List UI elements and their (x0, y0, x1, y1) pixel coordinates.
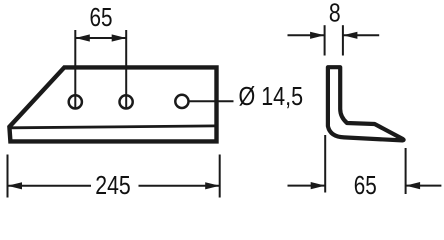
dimension 8: left line (288, 34, 325, 36)
extension line hole2 (125, 30, 127, 109)
dimension 65 top: line (75, 37, 126, 39)
dimension 8: extension right (342, 25, 344, 55)
dimension 65 bottom: left line (288, 185, 326, 187)
leader line hole diameter (189, 100, 234, 102)
extension line hole1 (74, 30, 76, 109)
hole 3 (175, 95, 188, 108)
dimension 245: line left segment (8, 185, 92, 187)
dimension 65 bottom: left arrow (311, 182, 326, 189)
svg-text:8: 8 (329, 0, 341, 28)
svg-text:65: 65 (354, 170, 377, 200)
dimension 8: left arrow (310, 32, 325, 39)
dimension 8: extension left (324, 25, 326, 55)
svg-text:65: 65 (90, 2, 113, 32)
dimension 8: right arrow (343, 32, 358, 39)
svg-text:Ø 14,5: Ø 14,5 (239, 81, 304, 111)
bevel line (11, 126, 216, 128)
svg-text:245: 245 (95, 170, 131, 200)
dimension 65 bottom: right arrow (406, 182, 421, 189)
hole 2 (120, 95, 133, 108)
blade side view outline (9, 67, 216, 141)
dimension 245: left arrow (8, 182, 23, 189)
dimension 65 bottom: extension left (324, 135, 326, 193)
dimension 245: extension right (219, 155, 221, 198)
dimension 245: extension left (7, 155, 9, 198)
dimension 245: line right segment (139, 185, 220, 187)
dimension 65 bottom: extension right (405, 148, 407, 194)
blade cross-section profile (328, 67, 404, 140)
dimension 245: right arrow (205, 182, 220, 189)
hole 1 (69, 95, 82, 108)
dimension 65 top: left arrow (75, 34, 90, 41)
dimension 8: right line (343, 34, 379, 36)
dimension 65 top: right arrow (112, 34, 127, 41)
dimension 65 bottom: right line (406, 185, 442, 187)
